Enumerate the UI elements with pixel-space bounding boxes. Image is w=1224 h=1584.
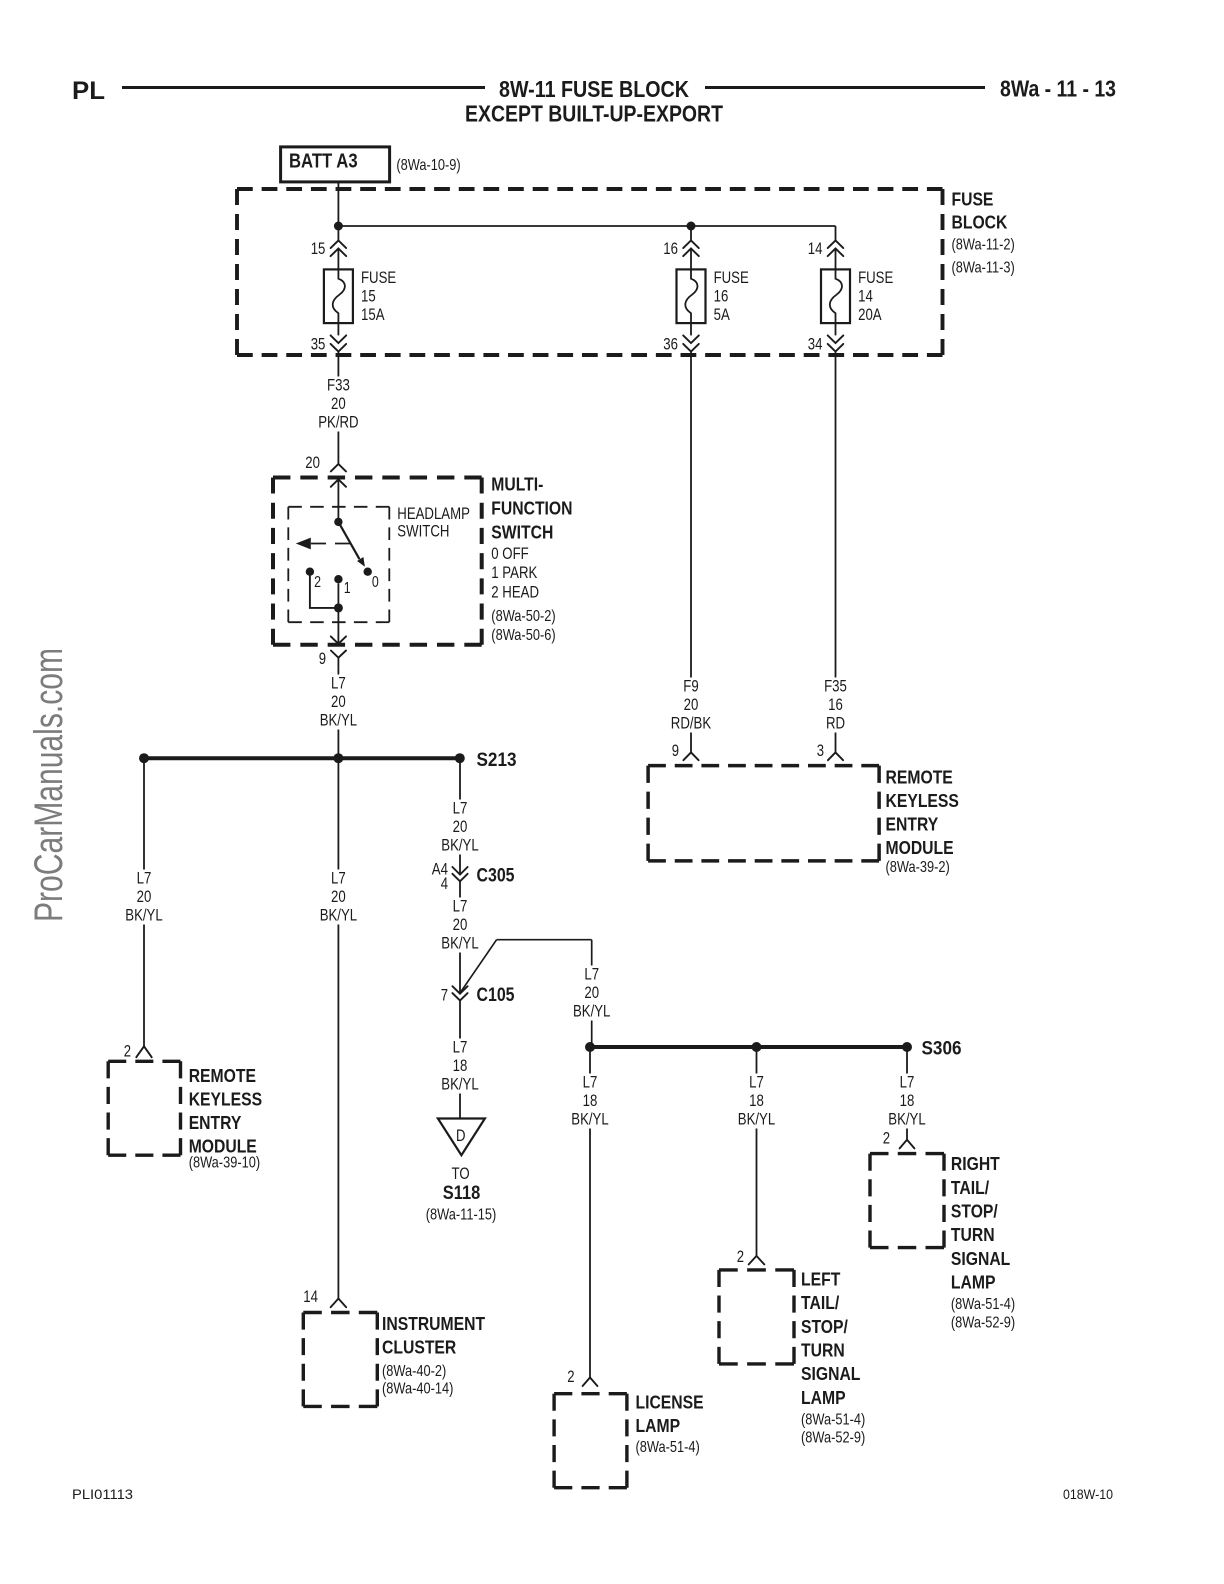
svg-text:4: 4 — [441, 875, 448, 893]
svg-text:20: 20 — [331, 888, 346, 906]
svg-text:KEYLESS: KEYLESS — [886, 790, 959, 811]
svg-text:L7: L7 — [331, 675, 346, 693]
wire junction to switch pin 9 — [337, 608, 339, 644]
svg-text:LAMP: LAMP — [636, 1415, 681, 1436]
junction middle on S213 — [333, 753, 343, 763]
svg-text:FUNCTION: FUNCTION — [491, 498, 572, 519]
wire L7 20 BK/YL S213 to connector C305 — [459, 758, 461, 874]
connector half (female) at license lamp pin 2 — [583, 1378, 598, 1387]
branch wire to splice S306 — [461, 940, 497, 992]
wire F35 16 RD fuse 14 pin 34 to module pin 3 — [835, 352, 837, 753]
svg-text:0: 0 — [372, 574, 379, 591]
svg-text:(8Wa-11-2): (8Wa-11-2) — [952, 237, 1015, 254]
connector half (female) at switch pin 20 — [331, 464, 346, 472]
svg-text:TAIL/: TAIL/ — [951, 1177, 989, 1198]
svg-text:(8Wa-40-14): (8Wa-40-14) — [382, 1381, 453, 1398]
svg-text:EXCEPT BUILT-UP-EXPORT: EXCEPT BUILT-UP-EXPORT — [465, 101, 723, 127]
svg-text:RIGHT: RIGHT — [951, 1153, 1000, 1174]
svg-text:(8Wa-51-4): (8Wa-51-4) — [951, 1296, 1015, 1313]
wire from contact 2 to output junction — [310, 576, 339, 608]
svg-text:BK/YL: BK/YL — [571, 1111, 608, 1129]
svg-text:2: 2 — [314, 574, 321, 591]
svg-text:L7: L7 — [137, 870, 152, 888]
svg-text:20: 20 — [305, 454, 320, 472]
svg-text:14: 14 — [808, 240, 823, 258]
battery feed BATT A3 box — [281, 147, 390, 182]
svg-text:(8Wa-39-2): (8Wa-39-2) — [886, 859, 950, 876]
svg-text:(8Wa-52-9): (8Wa-52-9) — [801, 1430, 865, 1447]
svg-text:STOP/: STOP/ — [801, 1316, 848, 1337]
svg-text:36: 36 — [663, 336, 678, 354]
svg-text:FUSE: FUSE — [858, 269, 893, 287]
svg-text:0 OFF: 0 OFF — [491, 545, 528, 563]
svg-text:S306: S306 — [922, 1038, 962, 1060]
svg-text:2: 2 — [737, 1248, 744, 1266]
connector C305 pins A4/4 — [452, 867, 467, 875]
svg-text:MODULE: MODULE — [886, 837, 954, 858]
fuse F14 20A with pins 14/34 — [828, 241, 844, 249]
svg-text:MODULE: MODULE — [189, 1136, 257, 1157]
svg-text:018W-10: 018W-10 — [1063, 1486, 1113, 1502]
svg-text:STOP/: STOP/ — [951, 1201, 998, 1222]
svg-text:(8Wa-51-4): (8Wa-51-4) — [801, 1411, 865, 1428]
switch contact 0 — [364, 568, 372, 576]
svg-text:9: 9 — [319, 650, 326, 668]
svg-text:2: 2 — [883, 1130, 890, 1148]
wire L7 18 BK/YL C105 to S118 arrow — [459, 1001, 461, 1119]
svg-text:BK/YL: BK/YL — [738, 1111, 775, 1129]
svg-text:L7: L7 — [900, 1074, 915, 1092]
svg-text:TURN: TURN — [951, 1224, 995, 1245]
junction right on S306 (S306 node) — [902, 1042, 912, 1052]
svg-text:REMOTE: REMOTE — [189, 1065, 256, 1086]
svg-text:2: 2 — [124, 1043, 131, 1061]
wire L7 18 BK/YL S306 to right tail lamp pin 2 — [906, 1047, 908, 1140]
svg-text:BK/YL: BK/YL — [441, 837, 478, 855]
fuse F16 5A with pins 16/36 — [690, 226, 692, 241]
svg-text:(8Wa-11-15): (8Wa-11-15) — [426, 1207, 497, 1224]
svg-text:BLOCK: BLOCK — [952, 212, 1008, 233]
svg-text:20: 20 — [331, 395, 346, 413]
switch contact 2 — [306, 568, 314, 576]
svg-text:ProCarManuals.com: ProCarManuals.com — [27, 648, 71, 922]
wire label F33 20 PK/RD — [315, 377, 361, 432]
svg-text:35: 35 — [311, 336, 326, 354]
connector half (female) below switch pin 9 — [331, 651, 346, 658]
remote keyless entry module (8Wa-39-10) box — [108, 1060, 180, 1063]
switch common contact — [334, 518, 342, 526]
switch output junction — [334, 603, 343, 612]
svg-text:20: 20 — [137, 888, 152, 906]
splice S306 bus — [590, 1045, 907, 1049]
header rule left — [122, 86, 485, 89]
svg-text:BK/YL: BK/YL — [320, 907, 357, 925]
fuse block dashed enclosure — [237, 187, 943, 191]
connector half (female) at module pin 3 — [828, 752, 843, 760]
svg-text:18: 18 — [900, 1092, 915, 1110]
svg-text:15A: 15A — [361, 306, 385, 324]
off-page arrow D to S118 — [438, 1119, 485, 1156]
svg-text:18: 18 — [749, 1092, 764, 1110]
svg-text:INSTRUMENT: INSTRUMENT — [382, 1313, 486, 1334]
connector half (female) at module pin 9 — [683, 752, 698, 760]
svg-text:SWITCH: SWITCH — [491, 522, 553, 543]
svg-text:PLI01113: PLI01113 — [72, 1486, 133, 1502]
headlamp switch inner dashed box — [288, 506, 389, 508]
multi-function switch dashed enclosure — [273, 476, 482, 480]
svg-text:MULTI-: MULTI- — [491, 474, 543, 495]
svg-text:HEADLAMP: HEADLAMP — [397, 505, 470, 523]
svg-text:15: 15 — [361, 288, 376, 306]
svg-text:7: 7 — [441, 987, 448, 1005]
svg-text:(8Wa-39-10): (8Wa-39-10) — [189, 1155, 260, 1172]
svg-text:BK/YL: BK/YL — [320, 712, 357, 730]
switch blade to position 0 — [338, 522, 359, 559]
svg-text:9: 9 — [672, 742, 679, 760]
svg-text:TAIL/: TAIL/ — [801, 1292, 839, 1313]
svg-text:TO: TO — [452, 1165, 470, 1183]
svg-text:20: 20 — [584, 984, 599, 1002]
svg-text:S118: S118 — [443, 1182, 481, 1204]
connector half (female) at left tail lamp pin 2 — [749, 1256, 765, 1265]
connector half (female) at cluster pin 14 — [331, 1299, 347, 1308]
svg-text:SIGNAL: SIGNAL — [801, 1363, 860, 1384]
svg-text:F33: F33 — [327, 377, 350, 395]
svg-text:BK/YL: BK/YL — [441, 935, 478, 953]
svg-text:LICENSE: LICENSE — [636, 1391, 704, 1412]
license lamp box — [554, 1392, 627, 1395]
svg-text:BATT A3: BATT A3 — [289, 150, 358, 173]
svg-text:20: 20 — [331, 693, 346, 711]
svg-text:C105: C105 — [477, 984, 515, 1006]
connector half (male arrow) inside switch pin 9 — [331, 636, 346, 643]
splice S213 bus — [144, 756, 460, 760]
right tail/stop/turn signal lamp box — [870, 1152, 944, 1155]
svg-text:ENTRY: ENTRY — [189, 1112, 242, 1133]
svg-text:FUSE: FUSE — [952, 189, 994, 210]
junction right on S213 (S213 node) — [455, 753, 465, 763]
svg-text:18: 18 — [583, 1092, 598, 1110]
svg-text:2: 2 — [567, 1368, 574, 1386]
junction at fuse 16 feed — [687, 222, 696, 231]
svg-text:F9: F9 — [683, 678, 698, 696]
wire L7 20 BK/YL S213 to remote keyless entry module pin 2 — [143, 758, 145, 1046]
svg-text:L7: L7 — [453, 898, 468, 916]
left tail/stop/turn signal lamp box — [719, 1268, 794, 1271]
svg-text:BK/YL: BK/YL — [125, 907, 162, 925]
svg-text:FUSE: FUSE — [714, 269, 749, 287]
wire L7 20 BK/YL C305 to connector C105 — [459, 881, 461, 993]
fuse F15 15A with pins 15/35 — [337, 226, 339, 241]
svg-text:FUSE: FUSE — [361, 269, 396, 287]
svg-text:L7: L7 — [583, 1074, 598, 1092]
svg-text:REMOTE: REMOTE — [886, 767, 953, 788]
svg-text:(8Wa-52-9): (8Wa-52-9) — [951, 1315, 1015, 1332]
svg-text:L7: L7 — [749, 1074, 764, 1092]
svg-text:LAMP: LAMP — [951, 1272, 996, 1293]
junction left on S213 — [139, 753, 149, 763]
svg-text:RD: RD — [826, 715, 845, 733]
svg-text:BK/YL: BK/YL — [441, 1076, 478, 1094]
svg-text:16: 16 — [828, 696, 843, 714]
svg-text:15: 15 — [311, 240, 326, 258]
svg-text:C305: C305 — [477, 865, 515, 887]
svg-text:L7: L7 — [584, 966, 599, 984]
svg-text:KEYLESS: KEYLESS — [189, 1089, 262, 1110]
wire F9 20 RD/BK fuse 16 pin 36 to module pin 9 — [690, 352, 692, 753]
svg-text:RD/BK: RD/BK — [671, 715, 711, 733]
junction at fuse 15 feed — [334, 222, 343, 231]
wire L7 20 BK/YL S213 to instrument cluster pin 14 — [337, 758, 339, 1298]
svg-text:20: 20 — [453, 916, 468, 934]
svg-text:CLUSTER: CLUSTER — [382, 1337, 456, 1358]
svg-text:LEFT: LEFT — [801, 1268, 841, 1289]
svg-text:LAMP: LAMP — [801, 1387, 846, 1408]
svg-text:(8Wa-11-3): (8Wa-11-3) — [952, 260, 1015, 277]
remote keyless entry module (8Wa-39-2) box — [648, 764, 879, 768]
svg-text:1: 1 — [344, 580, 351, 597]
svg-text:D: D — [456, 1127, 466, 1145]
svg-text:L7: L7 — [453, 1039, 468, 1057]
svg-text:20: 20 — [453, 818, 468, 836]
svg-text:PK/RD: PK/RD — [318, 414, 358, 432]
svg-text:PL: PL — [72, 77, 105, 105]
svg-text:16: 16 — [663, 240, 678, 258]
svg-text:(8Wa-50-6): (8Wa-50-6) — [491, 627, 555, 644]
svg-text:ENTRY: ENTRY — [886, 814, 939, 835]
switch contact 1 — [334, 575, 342, 583]
instrument cluster box — [303, 1311, 377, 1314]
svg-text:(8Wa-50-2): (8Wa-50-2) — [491, 608, 555, 625]
wire F33 20 PK/RD from fuse 15 pin 35 — [337, 352, 339, 464]
svg-text:BK/YL: BK/YL — [888, 1111, 925, 1129]
svg-text:20: 20 — [684, 696, 699, 714]
connector C105 pin 7 — [452, 986, 467, 994]
svg-text:1 PARK: 1 PARK — [491, 564, 537, 582]
svg-text:8Wa - 11 - 13: 8Wa - 11 - 13 — [1000, 76, 1116, 102]
svg-text:8W-11 FUSE BLOCK: 8W-11 FUSE BLOCK — [499, 76, 689, 102]
svg-text:BK/YL: BK/YL — [573, 1003, 610, 1021]
svg-text:14: 14 — [303, 1288, 318, 1306]
connector half (female) at module pin 2 — [136, 1046, 151, 1057]
header rule right — [705, 86, 985, 89]
wire L7 18 BK/YL S306 to license lamp pin 2 — [589, 1047, 591, 1378]
svg-text:(8Wa-10-9): (8Wa-10-9) — [396, 157, 460, 174]
svg-text:5A: 5A — [714, 306, 730, 324]
switch travel direction arrow — [311, 543, 350, 545]
svg-text:2 HEAD: 2 HEAD — [491, 583, 539, 601]
svg-text:18: 18 — [453, 1057, 468, 1075]
connector half (male arrow) inside switch pin 20 — [331, 479, 346, 487]
svg-text:34: 34 — [808, 336, 823, 354]
svg-text:L7: L7 — [331, 870, 346, 888]
svg-text:3: 3 — [817, 742, 824, 760]
junction middle on S306 — [752, 1042, 762, 1052]
svg-text:20A: 20A — [858, 306, 882, 324]
svg-text:SWITCH: SWITCH — [397, 523, 449, 541]
wire BATT A3 to fuse block bus — [337, 182, 339, 226]
svg-text:S213: S213 — [477, 749, 517, 771]
svg-text:SIGNAL: SIGNAL — [951, 1248, 1010, 1269]
wire from contact 1 to output junction — [337, 583, 339, 608]
svg-text:L7: L7 — [453, 800, 468, 818]
svg-text:16: 16 — [714, 288, 729, 306]
wire L7 18 BK/YL S306 to left tail lamp pin 2 — [756, 1047, 758, 1256]
bus wire inside fuse block — [338, 225, 835, 227]
svg-text:TURN: TURN — [801, 1340, 845, 1361]
wire L7 20 BK/YL switch pin 9 to splice S213 — [337, 668, 339, 758]
svg-text:(8Wa-51-4): (8Wa-51-4) — [636, 1439, 700, 1456]
svg-text:14: 14 — [858, 288, 873, 306]
svg-text:(8Wa-40-2): (8Wa-40-2) — [382, 1363, 446, 1380]
junction left on S306 — [585, 1042, 595, 1052]
svg-text:F35: F35 — [824, 678, 847, 696]
connector half (female) at right tail lamp pin 2 — [900, 1140, 915, 1149]
